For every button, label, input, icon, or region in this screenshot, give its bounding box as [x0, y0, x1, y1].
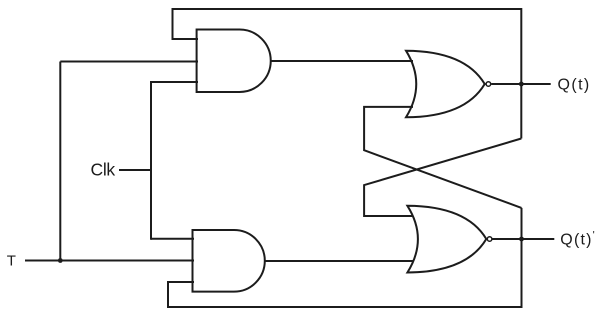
svg-text:Q(t)': Q(t)' [560, 230, 596, 249]
nor-gate NOR2 output bubble [487, 237, 492, 242]
wire T input horizontal [25, 260, 194, 262]
node Q(t)' output junction [519, 237, 524, 242]
wire T to AND1 middle input [60, 61, 198, 63]
wire Clk vertical [150, 81, 152, 240]
wire AND2 output to NOR2 bottom input [265, 260, 413, 262]
wire Clk stub [119, 169, 152, 171]
wire Q(t) feedback: AND1 top input, over top border, down right side [173, 9, 522, 139]
wire Clk to AND2 top input [151, 238, 194, 240]
nor-gate NOR1 output bubble [486, 82, 491, 87]
svg-text:T: T [7, 253, 16, 270]
wire cross-couple Q(t) diagonal to NOR2 top input [364, 139, 521, 217]
wire Q(t)' feedback: AND2 bottom input, along bottom border, up right side [168, 208, 522, 307]
node T input junction [58, 258, 63, 263]
nor-gate NOR2 (bottom) body [407, 206, 486, 273]
svg-text:Q(t): Q(t) [558, 77, 591, 94]
svg-text:Clk: Clk [91, 160, 116, 180]
nor-gate NOR1 (top) body [406, 51, 485, 118]
wire cross-couple Q(t)' diagonal to NOR1 bottom input [364, 107, 521, 208]
and-gate AND1 (top) [197, 30, 271, 93]
wire NOR1 output to Q(t) [491, 83, 551, 85]
wire Clk to AND1 bottom input [151, 81, 198, 83]
node Q(t) output junction [519, 82, 524, 87]
wire AND1 output to NOR1 top input [271, 60, 413, 62]
and-gate AND2 (bottom) [193, 230, 265, 292]
wire T branch vertical [59, 62, 61, 261]
wire NOR2 output to Q(t)' [492, 238, 554, 240]
